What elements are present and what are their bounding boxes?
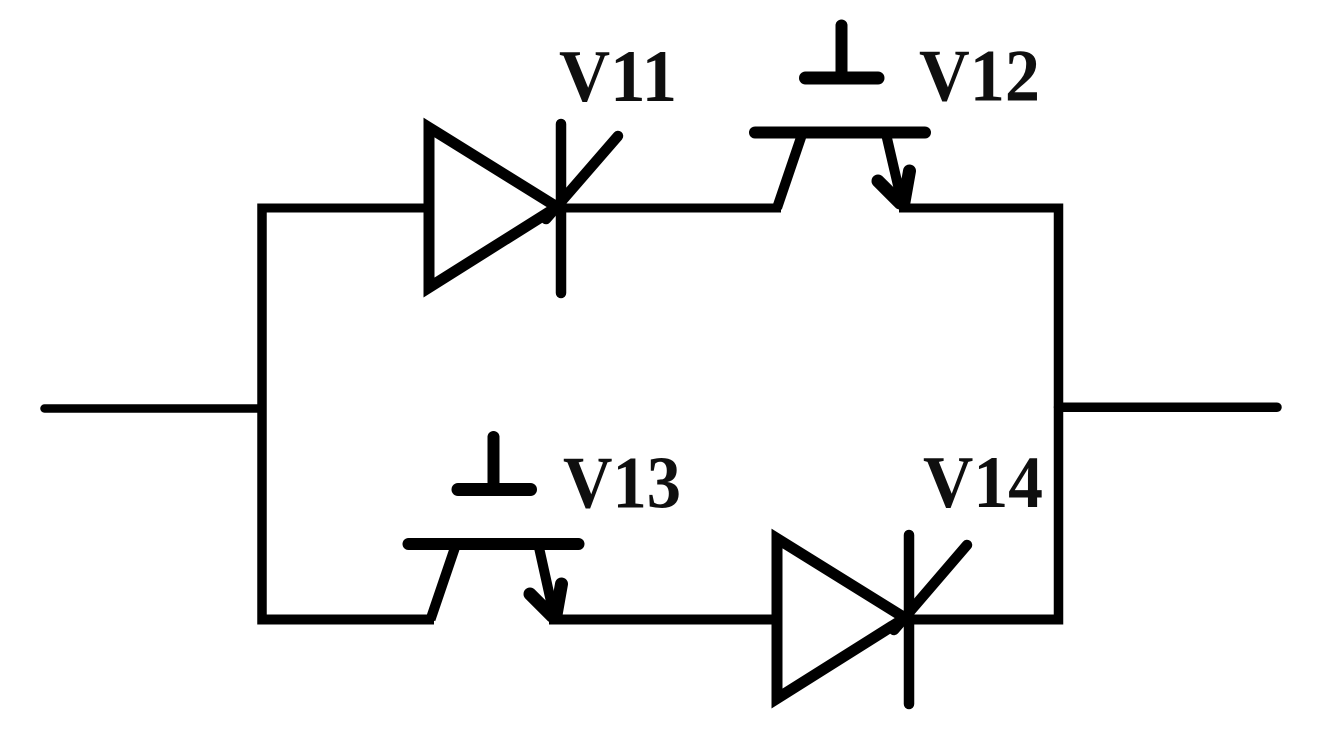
wire top branch segment A xyxy=(258,204,431,213)
wire right lead xyxy=(1059,403,1278,413)
thyristor V11 triangle xyxy=(429,128,557,288)
wire bottom branch segment A xyxy=(258,615,435,625)
transistor V12 arrow barb right xyxy=(904,171,910,202)
wire left vertical xyxy=(257,204,267,625)
thyristor V14 triangle xyxy=(777,539,905,699)
svg-text:V12: V12 xyxy=(919,36,1040,118)
thyristor V11 gate xyxy=(546,136,618,219)
svg-text:V14: V14 xyxy=(923,442,1043,524)
thyristor V14 gate xyxy=(894,545,967,630)
thyristor V11 cathode bar xyxy=(556,124,567,293)
transistor V13 right lead xyxy=(539,548,555,618)
transistor V12 gate bar xyxy=(806,72,879,85)
wire right vertical xyxy=(1054,204,1064,625)
wire top branch segment C xyxy=(899,204,1063,213)
transistor V13 gate bar xyxy=(458,483,531,496)
transistor V13 left lead xyxy=(431,548,456,620)
transistor V12 arrow barb left xyxy=(878,181,900,203)
svg-text:V11: V11 xyxy=(559,36,677,118)
wire left lead xyxy=(45,404,263,413)
transistor V13 arrow barb right xyxy=(556,584,562,615)
transistor V13 arrow barb left xyxy=(530,594,552,616)
wire bottom branch segment B xyxy=(549,615,778,625)
wire top branch segment B xyxy=(557,204,781,213)
transistor V12 left lead xyxy=(777,136,802,208)
transistor V13 gate stub xyxy=(488,437,500,490)
transistor V13 body bar xyxy=(409,538,579,550)
transistor V12 right lead xyxy=(887,136,903,205)
svg-text:V13: V13 xyxy=(563,443,681,525)
wire bottom branch segment C xyxy=(905,615,1063,625)
transistor V12 gate stub xyxy=(836,26,848,79)
transistor V12 body bar xyxy=(755,127,925,139)
thyristor V14 cathode bar xyxy=(904,535,915,704)
